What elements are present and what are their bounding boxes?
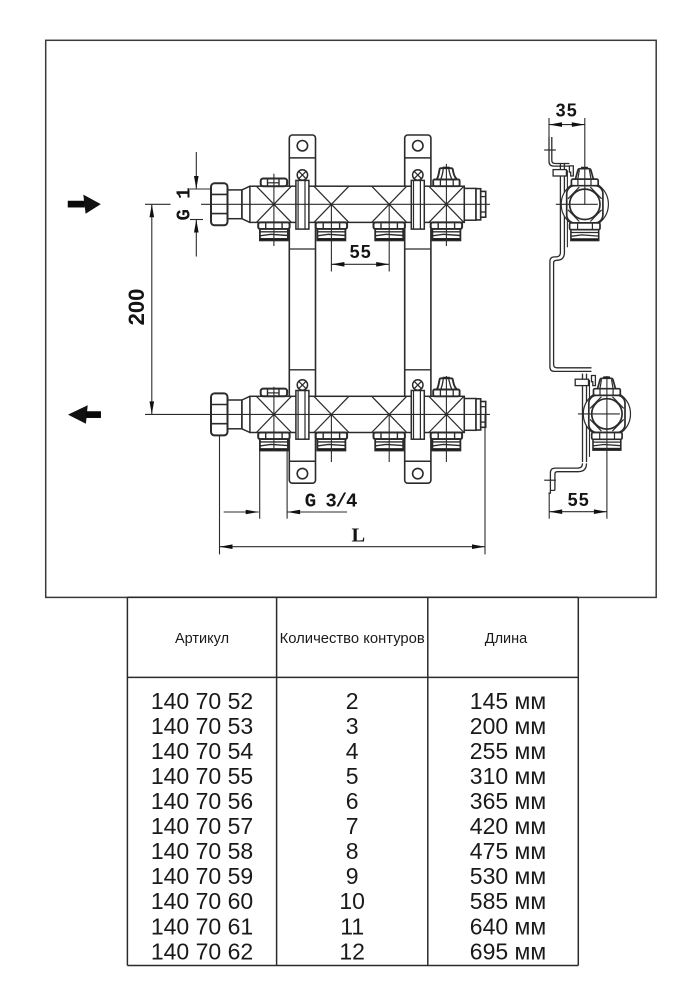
svg-text:140 70 57: 140 70 57 bbox=[151, 813, 253, 839]
svg-text:695 мм: 695 мм bbox=[470, 938, 546, 964]
svg-text:200 мм: 200 мм bbox=[470, 713, 546, 739]
fixing screw bottom-right bbox=[413, 380, 423, 390]
dimension L overall length bbox=[220, 414, 486, 554]
svg-text:585 мм: 585 мм bbox=[470, 888, 546, 914]
end cap bottom bar bbox=[464, 399, 485, 431]
svg-text:5: 5 bbox=[346, 763, 359, 789]
side view manifold section top bbox=[556, 167, 609, 240]
svg-text:35: 35 bbox=[556, 101, 578, 121]
mounting rail right bbox=[405, 135, 431, 483]
manifold bar bottom (return) bbox=[250, 396, 464, 432]
drawing frame bbox=[46, 40, 657, 597]
fixing screw bottom-left bbox=[297, 380, 307, 390]
mounting rail left bbox=[289, 135, 315, 483]
end cap top bar bbox=[464, 188, 485, 220]
top bar centerline bbox=[201, 203, 490, 205]
svg-text:140 70 55: 140 70 55 bbox=[151, 763, 253, 789]
rail hole top right bbox=[413, 141, 423, 151]
rail hole top left bbox=[297, 141, 307, 151]
section centerline verticals bottom bar bbox=[274, 376, 447, 462]
svg-text:140 70 59: 140 70 59 bbox=[151, 863, 253, 889]
svg-text:Артикул: Артикул bbox=[175, 631, 229, 647]
svg-text:55: 55 bbox=[568, 490, 590, 510]
svg-text:420 мм: 420 мм bbox=[470, 813, 546, 839]
outlet connector top outlet 3 bbox=[374, 222, 405, 240]
flow arrow in (top) bbox=[68, 195, 101, 214]
rail hole bottom right bbox=[413, 468, 423, 478]
specification table bbox=[127, 597, 578, 965]
svg-text:55: 55 bbox=[350, 242, 372, 262]
svg-text:140 70 61: 140 70 61 bbox=[151, 913, 253, 939]
dimension 35 bracket offset bbox=[549, 101, 585, 137]
air vent valve top bar bbox=[433, 167, 459, 186]
rail clamp top-left bbox=[296, 180, 309, 229]
dimension 200 bar spacing bbox=[124, 204, 171, 414]
svg-text:200: 200 bbox=[124, 289, 149, 326]
manifold bar top (supply) bbox=[250, 186, 464, 222]
valve cap bottom bar section 1 bbox=[261, 389, 287, 397]
bottom bar centerline bbox=[145, 413, 490, 415]
outlet connector bottom outlet 3 bbox=[374, 433, 405, 451]
svg-text:9: 9 bbox=[346, 863, 359, 889]
svg-text:365 мм: 365 мм bbox=[470, 788, 546, 814]
svg-text:G 3/4: G 3/4 bbox=[305, 491, 357, 513]
svg-text:8: 8 bbox=[346, 838, 359, 864]
svg-text:3: 3 bbox=[346, 713, 359, 739]
bracket clamp junction top bbox=[553, 164, 573, 253]
fixing screw top-left bbox=[297, 170, 307, 180]
svg-text:475 мм: 475 мм bbox=[470, 838, 546, 864]
svg-text:145 мм: 145 мм bbox=[470, 688, 546, 714]
svg-text:4: 4 bbox=[346, 738, 359, 764]
table data rows bbox=[151, 688, 546, 965]
svg-text:L: L bbox=[351, 525, 365, 547]
dimension 55 outlet spacing bbox=[331, 242, 389, 272]
svg-text:255 мм: 255 мм bbox=[470, 738, 546, 764]
svg-text:140 70 60: 140 70 60 bbox=[151, 888, 253, 914]
svg-text:140 70 62: 140 70 62 bbox=[151, 938, 253, 964]
svg-text:140 70 54: 140 70 54 bbox=[151, 738, 254, 764]
svg-text:140 70 52: 140 70 52 bbox=[151, 688, 253, 714]
outlet connector bottom outlet 4 bbox=[431, 433, 462, 451]
svg-text:140 70 53: 140 70 53 bbox=[151, 713, 253, 739]
svg-text:Длина: Длина bbox=[485, 631, 528, 647]
side view top valve centerline bbox=[584, 118, 586, 204]
flow arrow out (bottom) bbox=[68, 405, 101, 424]
svg-text:140 70 58: 140 70 58 bbox=[151, 838, 253, 864]
dimension G1 thread bbox=[174, 152, 211, 257]
section centerline verticals top bar bbox=[274, 164, 447, 246]
dimension 55 bracket offset bottom bbox=[549, 456, 607, 519]
svg-text:530 мм: 530 мм bbox=[470, 863, 546, 889]
table headers bbox=[175, 631, 528, 647]
rail hole bottom left bbox=[297, 468, 307, 478]
side view wall bracket profile bbox=[544, 137, 591, 493]
outlet connector bottom outlet 2 bbox=[316, 433, 347, 451]
dimension G3/4 outlet thread bbox=[224, 450, 357, 519]
svg-text:2: 2 bbox=[346, 688, 359, 714]
svg-text:6: 6 bbox=[346, 788, 359, 814]
union nut fitting top-left bbox=[211, 183, 250, 225]
outlet connector top outlet 1 bbox=[258, 222, 289, 240]
air vent valve bottom bar bbox=[433, 377, 459, 396]
rail clamp bottom-left bbox=[296, 391, 309, 440]
svg-text:640 мм: 640 мм bbox=[470, 913, 546, 939]
side view manifold section bottom bbox=[578, 377, 631, 450]
side view bottom valve centerline bbox=[606, 376, 608, 456]
outlet connector top outlet 2 bbox=[316, 222, 347, 240]
union nut fitting bottom-left bbox=[211, 393, 250, 435]
svg-text:G 1: G 1 bbox=[174, 188, 196, 221]
svg-text:140 70 56: 140 70 56 bbox=[151, 788, 253, 814]
rail clamp top-right bbox=[411, 180, 424, 229]
valve cap top bar section 1 bbox=[261, 179, 287, 187]
svg-text:11: 11 bbox=[340, 913, 364, 939]
fixing screw top-right bbox=[413, 170, 423, 180]
svg-text:12: 12 bbox=[339, 938, 365, 964]
svg-text:10: 10 bbox=[339, 888, 365, 914]
svg-text:7: 7 bbox=[346, 813, 359, 839]
bracket clamp junction bottom bbox=[575, 374, 595, 463]
svg-text:310 мм: 310 мм bbox=[470, 763, 546, 789]
rail clamp bottom-right bbox=[411, 391, 424, 440]
outlet connector bottom outlet 1 bbox=[258, 433, 289, 451]
outlet connector top outlet 4 bbox=[431, 222, 462, 240]
svg-text:Количество контуров: Количество контуров bbox=[280, 631, 425, 647]
